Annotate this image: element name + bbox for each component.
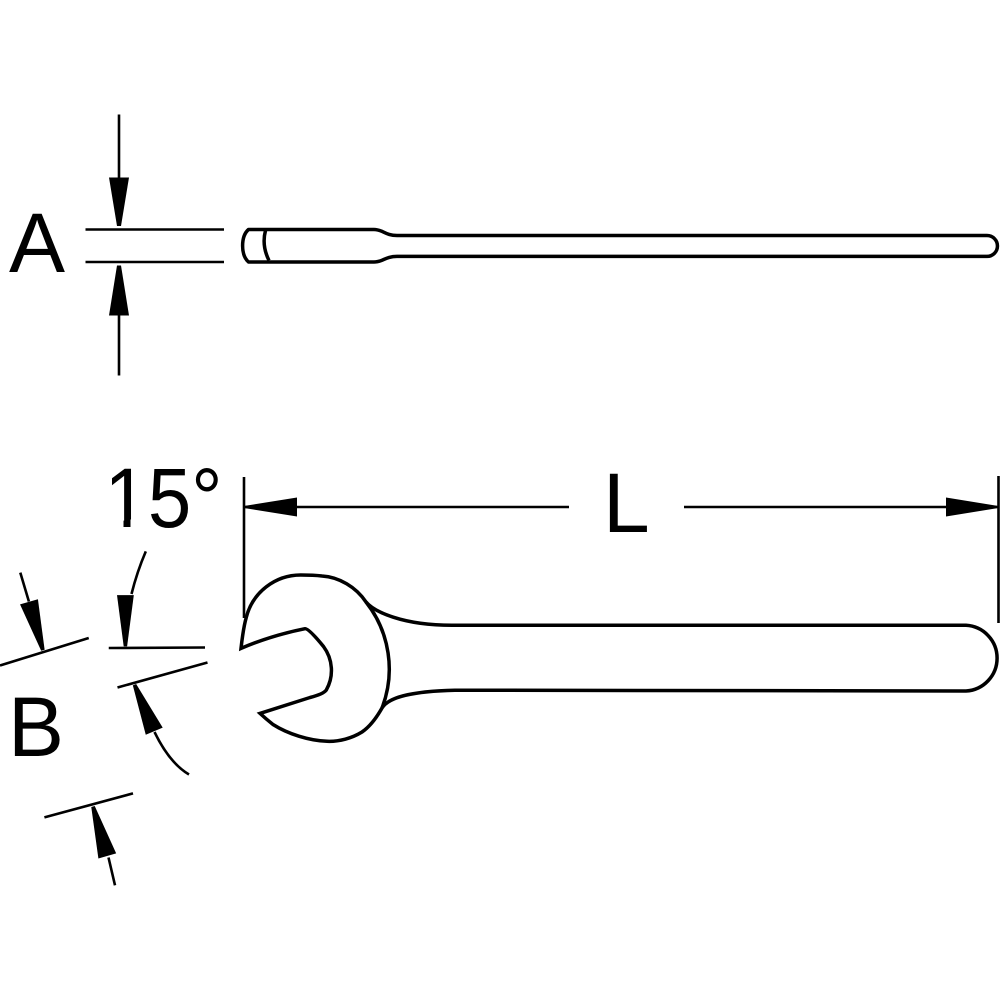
extension line L left	[243, 477, 246, 618]
svg-text:15°: 15°	[105, 451, 223, 545]
dimension extension line A bottom	[86, 261, 225, 264]
wrench top view outline	[241, 575, 997, 741]
B arrowhead lower	[84, 804, 116, 859]
svg-text:B: B	[8, 680, 64, 774]
arrow shaft A top	[118, 115, 121, 181]
B arrowhead upper left	[20, 599, 52, 653]
dimension extension line A top	[86, 228, 225, 231]
dimension line L left segment	[244, 506, 569, 509]
B extension line lower left	[44, 793, 133, 817]
arrowhead A top (pointing down)	[109, 178, 129, 227]
arrowhead L left (pointing left)	[246, 498, 298, 517]
wrench top view head side arc	[366, 602, 389, 708]
extension line L right	[997, 476, 1000, 623]
arrowhead A bottom (pointing up)	[109, 266, 129, 316]
angle arc shaft lower	[155, 732, 190, 775]
dimension line L right segment	[684, 506, 998, 509]
B arrow lower shaft	[109, 858, 116, 886]
angle arc shaft upper	[132, 551, 146, 594]
svg-text:A: A	[9, 196, 65, 290]
angle arrowhead upper	[117, 595, 134, 646]
angle arrowhead lower	[126, 681, 163, 735]
wrench side view outline	[243, 230, 998, 263]
arrow shaft A bottom	[118, 313, 121, 376]
svg-text:L: L	[603, 456, 650, 550]
arrowhead L right (pointing right)	[946, 498, 997, 517]
angle reference line slanted	[118, 663, 208, 688]
B extension line upper left	[0, 638, 89, 666]
wrench side view head contour arc	[264, 231, 269, 261]
B arrow upper left shaft	[20, 573, 29, 602]
angle reference line horizontal	[109, 646, 205, 649]
